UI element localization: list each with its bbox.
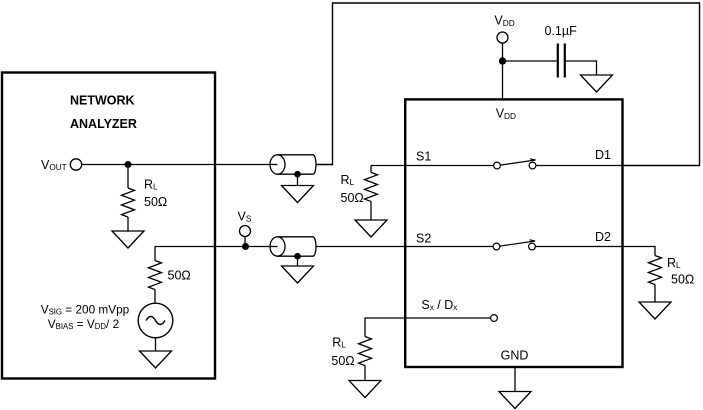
svg-text:0.1µF: 0.1µF <box>545 24 578 38</box>
svg-text:D1: D1 <box>595 148 611 162</box>
svg-text:VOUT: VOUT <box>41 158 67 172</box>
svg-text:VDD: VDD <box>496 106 516 121</box>
svg-text:S1: S1 <box>416 150 431 164</box>
svg-text:VS: VS <box>238 209 252 223</box>
svg-text:ANALYZER: ANALYZER <box>70 117 137 131</box>
svg-text:RL: RL <box>144 178 158 192</box>
svg-text:VBIAS = VDD/ 2: VBIAS = VDD/ 2 <box>48 317 119 331</box>
svg-text:GND: GND <box>501 349 529 363</box>
svg-text:RL: RL <box>667 256 681 270</box>
svg-text:50Ω: 50Ω <box>144 195 167 209</box>
svg-text:50Ω: 50Ω <box>671 272 694 286</box>
svg-text:VDD: VDD <box>494 13 514 28</box>
svg-text:VSIG = 200 mVpp: VSIG = 200 mVpp <box>41 303 130 317</box>
svg-text:50Ω: 50Ω <box>331 354 354 368</box>
svg-text:D2: D2 <box>595 230 611 244</box>
svg-text:Sx / Dx: Sx / Dx <box>421 298 457 312</box>
svg-text:RL: RL <box>332 336 346 350</box>
svg-text:RL: RL <box>341 173 355 187</box>
svg-text:S2: S2 <box>416 232 431 246</box>
svg-text:NETWORK: NETWORK <box>70 94 135 108</box>
svg-text:50Ω: 50Ω <box>168 269 191 283</box>
svg-text:50Ω: 50Ω <box>341 191 364 205</box>
